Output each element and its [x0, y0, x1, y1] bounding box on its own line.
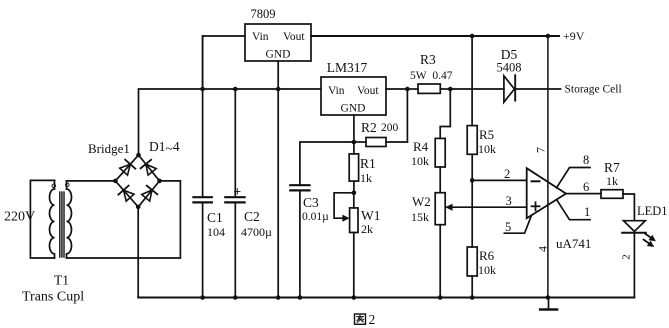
label Storage Cell	[565, 84, 622, 96]
wire D5 to storage cell	[515, 88, 560, 90]
node bridge bottom	[136, 205, 141, 210]
op-amp U1 triangle	[527, 168, 566, 218]
svg-text:GND: GND	[266, 49, 291, 61]
svg-text:Vin: Vin	[328, 85, 345, 97]
resistor R5	[467, 126, 477, 155]
value 104	[207, 225, 225, 239]
regulator U3 LM317 box	[321, 77, 386, 115]
svg-text:W2: W2	[412, 194, 431, 209]
svg-text:10k: 10k	[411, 154, 429, 168]
arrow W1 wiper	[342, 215, 349, 222]
transformer winding marks	[52, 183, 69, 187]
wire R5 to junction	[471, 154, 473, 180]
label LED1	[637, 204, 668, 218]
wire +9V to op-amp pin7 and pin4 to rail	[547, 36, 549, 298]
pin 5 stub	[504, 215, 531, 233]
svg-text:0.01µ: 0.01µ	[302, 211, 329, 223]
label C2	[244, 209, 260, 224]
wire W2 to bottom rail	[439, 225, 441, 298]
wire LM317 GND	[353, 115, 355, 142]
pin label 2	[504, 167, 510, 181]
pin label 8	[583, 153, 589, 167]
diode D3 (bridge lower-left)	[118, 186, 134, 201]
value 1k (R7)	[606, 174, 618, 188]
wire bridge bottom to negative rail	[137, 207, 139, 298]
node R1-W1 junction	[352, 191, 357, 196]
pin label 7	[534, 147, 548, 153]
caption glyph 图	[355, 314, 366, 324]
value 5W 0.47	[410, 70, 453, 82]
pin label 4	[536, 246, 550, 252]
svg-text:6: 6	[583, 180, 589, 194]
svg-text:1k: 1k	[606, 174, 618, 188]
junction pin4 at bottom rail	[546, 295, 551, 300]
svg-text:+: +	[234, 184, 242, 199]
wire 7809 Vin	[203, 36, 245, 89]
polarity + of C2	[234, 184, 242, 199]
wire C2	[234, 89, 236, 298]
svg-text:LED1: LED1	[637, 204, 668, 218]
svg-text:220V: 220V	[4, 210, 35, 225]
label D1~4	[149, 139, 180, 156]
node R3 right junction	[448, 87, 453, 92]
label R6	[479, 248, 495, 263]
svg-text:5W 0.47: 5W 0.47	[410, 70, 453, 82]
svg-text:uA741: uA741	[556, 236, 591, 251]
label C1	[207, 210, 223, 225]
transformer T1 core	[60, 192, 64, 257]
label Bridge1	[88, 141, 130, 156]
arrow W2 wiper	[445, 204, 452, 211]
transformer T1 secondary winding	[67, 181, 72, 258]
value 200	[381, 122, 399, 134]
svg-text:R2: R2	[361, 120, 377, 135]
pin label GND (7809)	[266, 49, 291, 61]
wire label 2 (LED lead)	[621, 254, 633, 260]
op-amp plus sign	[532, 202, 540, 210]
label C3	[303, 195, 319, 210]
wire secondary bottom to bridge right node	[67, 181, 181, 258]
wire LM317 Vout	[386, 88, 407, 90]
wire W2 wiper to op-amp pin3	[445, 206, 526, 208]
wire W1 wiper loop	[334, 193, 354, 218]
svg-text:4: 4	[536, 246, 550, 252]
wire adj junction to C3	[300, 142, 354, 185]
resistor R2	[354, 138, 408, 147]
junction W1 at bottom rail	[352, 295, 357, 300]
bridge rectifier frame	[115, 155, 159, 207]
junction 7809 GND at bottom rail	[276, 295, 281, 300]
svg-text:R1: R1	[360, 156, 376, 171]
AC source 220V terminals	[30, 180, 54, 258]
wire R6 to bottom rail	[471, 276, 473, 298]
label W2	[412, 194, 431, 209]
pin 1 stub	[557, 200, 591, 220]
potentiometer W1	[350, 193, 358, 298]
potentiometer W2	[435, 193, 445, 225]
pin label Vout (7809)	[283, 31, 305, 43]
svg-text:GND: GND	[341, 103, 366, 115]
junction C1 at bus	[200, 87, 205, 92]
svg-text:C1: C1	[207, 210, 223, 225]
label uA741	[556, 236, 591, 251]
wire LED to bottom rail	[633, 233, 635, 298]
svg-text:C3: C3	[303, 195, 319, 210]
wire output junction down to R2	[406, 89, 408, 142]
value 10k (R5)	[478, 142, 496, 156]
junction C2 at bus	[233, 87, 238, 92]
svg-text:8: 8	[583, 153, 589, 167]
svg-text:Trans Cupl: Trans Cupl	[22, 290, 84, 305]
wire bridge top to DC bus	[139, 89, 322, 155]
svg-text:15k: 15k	[411, 210, 429, 224]
svg-text:7: 7	[534, 147, 548, 153]
pin label 1	[584, 205, 590, 219]
wire R7 to LED	[623, 194, 634, 221]
node bridge right	[157, 179, 162, 184]
label 220V	[4, 210, 35, 225]
svg-text:5: 5	[505, 220, 511, 234]
junction R5 at top rail	[470, 34, 475, 39]
LED LED1 triangle	[622, 221, 646, 233]
svg-text:R4: R4	[413, 139, 429, 154]
svg-text:7809: 7809	[251, 7, 276, 21]
label +9V	[563, 29, 585, 43]
svg-text:1k: 1k	[360, 171, 372, 185]
svg-text:R3: R3	[420, 52, 436, 67]
node LM317 adj junction	[352, 140, 357, 145]
svg-text:2: 2	[504, 167, 510, 181]
label R7	[604, 160, 620, 175]
svg-text:10k: 10k	[478, 263, 496, 277]
svg-text:R7: R7	[604, 160, 620, 175]
svg-text:R6: R6	[479, 248, 495, 263]
ground	[540, 298, 557, 310]
wire junction to R6	[471, 180, 473, 247]
op-amp minus sign	[532, 180, 540, 182]
value 10k (R4)	[411, 154, 429, 168]
resistor R4	[435, 138, 445, 167]
diode D5	[504, 75, 515, 102]
diode D4 (bridge lower-right)	[142, 186, 158, 201]
svg-text:200: 200	[381, 122, 399, 134]
resistor R6	[467, 247, 477, 276]
wire +9V to R5	[471, 36, 473, 126]
resistor R7	[601, 190, 623, 199]
wire C1 / Vin drop	[202, 36, 204, 298]
value 5408	[497, 61, 522, 75]
junction R6 at bottom rail	[470, 295, 475, 300]
wire op-amp output pin6	[566, 193, 601, 195]
pin label 6	[583, 180, 589, 194]
label D5	[501, 47, 518, 62]
svg-text:T1: T1	[54, 273, 69, 288]
junction 7809 GND at bus	[276, 87, 281, 92]
svg-text:3: 3	[506, 194, 512, 208]
capacitor C1	[193, 197, 211, 202]
wire junction to op-amp pin2	[472, 179, 527, 181]
caption text 2	[369, 312, 376, 327]
pin label 3	[506, 194, 512, 208]
value 1k (R1)	[360, 171, 372, 185]
node bridge top	[136, 153, 141, 158]
positive +9V top rail	[311, 35, 559, 37]
label T1	[54, 273, 69, 288]
value 4700µ	[241, 225, 272, 239]
svg-text:Vin: Vin	[252, 31, 269, 43]
wire R4 to W2	[439, 167, 441, 193]
diode D2 (bridge upper-right)	[141, 160, 157, 175]
wire R3 junction down to R4	[440, 89, 450, 138]
value 2k (W1)	[361, 222, 373, 236]
value 0.01µ	[302, 211, 329, 223]
label R5	[479, 127, 494, 142]
svg-text:2k: 2k	[361, 222, 373, 236]
svg-text:10k: 10k	[478, 142, 496, 156]
svg-text:Vout: Vout	[283, 31, 305, 43]
label R1	[360, 156, 376, 171]
label 7809	[251, 7, 276, 21]
svg-text:R5: R5	[479, 127, 494, 142]
transformer T1 primary winding	[50, 180, 55, 258]
junction W2 at bottom rail	[438, 295, 443, 300]
wire secondary top to bridge left node	[67, 180, 116, 182]
label R2	[361, 120, 377, 135]
wire C3 to rail	[299, 190, 301, 297]
pin label 5	[505, 220, 511, 234]
pin label GND (LM317)	[341, 103, 366, 115]
pin label Vin (7809)	[252, 31, 269, 43]
negative bottom rail	[138, 297, 634, 299]
svg-text:Storage Cell: Storage Cell	[565, 84, 622, 96]
LED light arrows	[644, 234, 656, 247]
diode D1 (bridge upper-left)	[120, 160, 136, 175]
svg-text:D1~4: D1~4	[149, 139, 180, 156]
capacitor C3	[290, 185, 309, 190]
regulator U2 7809 box	[245, 24, 311, 61]
junction C3 at bottom rail	[298, 295, 303, 300]
capacitor C2	[225, 197, 244, 202]
pin label Vin (LM317)	[328, 85, 345, 97]
svg-text:2: 2	[369, 312, 376, 327]
label R4	[413, 139, 429, 154]
svg-text:Vout: Vout	[357, 85, 379, 97]
label LM317	[327, 60, 368, 75]
node LM317 output junction	[405, 87, 410, 92]
svg-text:W1: W1	[361, 208, 381, 223]
junction C2 at bottom rail	[233, 295, 238, 300]
wire R3 to D5	[450, 88, 504, 90]
svg-text:Bridge1: Bridge1	[88, 141, 130, 156]
node R5-R6 junction	[470, 178, 475, 183]
svg-text:104: 104	[207, 225, 225, 239]
svg-text:4700µ: 4700µ	[241, 225, 272, 239]
svg-text:LM317: LM317	[327, 60, 368, 75]
value 15k (W2)	[411, 210, 429, 224]
label W1	[361, 208, 381, 223]
svg-text:C2: C2	[244, 209, 260, 224]
junction C1 at bottom rail	[200, 295, 205, 300]
pin 8 stub	[557, 168, 591, 188]
wire 7809 GND to rails	[277, 61, 279, 298]
svg-text:+9V: +9V	[563, 29, 585, 43]
node bridge left	[113, 179, 118, 184]
svg-text:1: 1	[584, 205, 590, 219]
value 10k (R6)	[478, 263, 496, 277]
pin label Vout (LM317)	[357, 85, 379, 97]
label Trans Cupl	[22, 290, 84, 305]
resistor R3	[407, 84, 450, 93]
svg-text:5408: 5408	[497, 61, 522, 75]
resistor R1	[349, 142, 358, 193]
junction pin7 at top rail	[546, 34, 551, 39]
label R3	[420, 52, 436, 67]
svg-text:2: 2	[621, 254, 633, 260]
